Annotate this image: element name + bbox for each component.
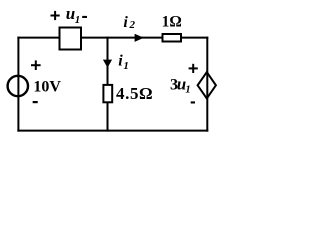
svg-text:1Ω: 1Ω xyxy=(162,14,182,31)
label plus (dependent source) xyxy=(189,64,198,73)
resistor 4.5 ohm (vertical box on middle branch) xyxy=(103,85,112,102)
resistor 1 ohm (box on top wire, right) xyxy=(163,34,182,42)
current arrow i2 (arrowhead on top wire) xyxy=(135,34,144,42)
label minus (10V source) xyxy=(33,101,38,103)
label minus (u1 element, right) xyxy=(82,16,87,18)
current arrow i1 (arrowhead on middle branch) xyxy=(103,60,112,68)
voltage source 10V (circle on left wire) xyxy=(8,76,28,96)
dependent source 3u1 (diamond on right wire) xyxy=(198,72,216,98)
svg-text:1: 1 xyxy=(75,14,81,26)
svg-text:2: 2 xyxy=(129,19,136,31)
wire left xyxy=(17,37,19,132)
svg-text:i: i xyxy=(123,14,128,31)
svg-text:1: 1 xyxy=(185,83,191,95)
wire right xyxy=(206,37,208,132)
svg-text:10V: 10V xyxy=(33,79,61,96)
element u1 box (on top wire) xyxy=(60,28,82,50)
label plus (u1 element, left) xyxy=(51,11,60,20)
svg-text:4.5Ω: 4.5Ω xyxy=(116,84,153,103)
wire bottom xyxy=(17,130,208,132)
label plus (10V source) xyxy=(31,60,41,70)
wire top xyxy=(17,37,208,39)
svg-text:1: 1 xyxy=(123,60,128,72)
label minus (dependent source) xyxy=(191,101,195,103)
wire middle branch xyxy=(107,37,109,132)
